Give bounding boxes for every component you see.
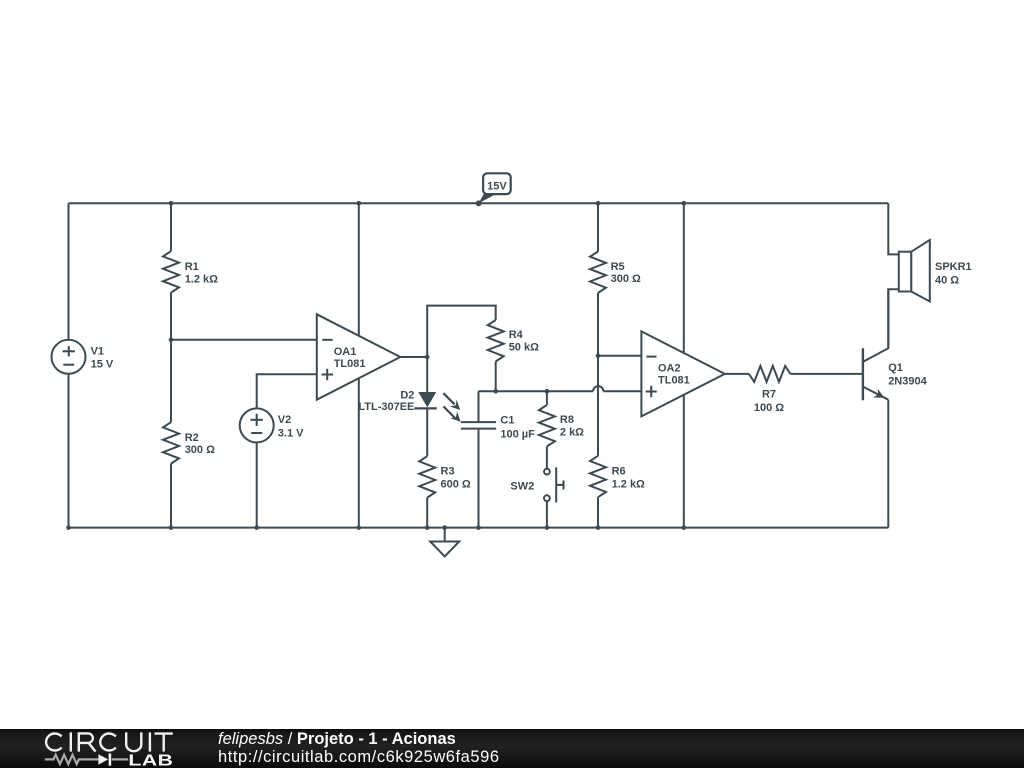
- svg-text:15V: 15V: [487, 180, 507, 192]
- svg-text:2 kΩ: 2 kΩ: [560, 426, 584, 438]
- svg-text:1.2 kΩ: 1.2 kΩ: [612, 479, 645, 491]
- svg-text:100 µF: 100 µF: [500, 428, 535, 440]
- svg-text:600 Ω: 600 Ω: [441, 478, 471, 490]
- svg-text:2N3904: 2N3904: [888, 376, 927, 388]
- svg-text:D2: D2: [400, 390, 414, 402]
- svg-text:15 V: 15 V: [91, 359, 114, 371]
- svg-text:OA1: OA1: [334, 346, 357, 358]
- svg-text:100 Ω: 100 Ω: [754, 402, 784, 414]
- svg-text:R2: R2: [185, 432, 199, 444]
- svg-text:SPKR1: SPKR1: [935, 261, 972, 273]
- svg-text:felipesbs / Projeto - 1 - Acio: felipesbs / Projeto - 1 - Acionas: [218, 730, 456, 748]
- svg-text:40 Ω: 40 Ω: [935, 274, 959, 286]
- svg-text:Q1: Q1: [888, 362, 903, 374]
- svg-text:R5: R5: [611, 261, 625, 273]
- svg-text:R6: R6: [612, 466, 626, 478]
- svg-text:OA2: OA2: [658, 362, 681, 374]
- svg-text:3.1 V: 3.1 V: [278, 428, 304, 440]
- svg-text:1.2 kΩ: 1.2 kΩ: [185, 273, 218, 285]
- svg-text:R8: R8: [560, 414, 574, 426]
- svg-text:TL081: TL081: [658, 375, 690, 387]
- svg-text:R4: R4: [509, 329, 524, 341]
- svg-text:R1: R1: [185, 261, 199, 273]
- svg-text:LAB: LAB: [128, 751, 173, 768]
- svg-text:V1: V1: [91, 346, 104, 358]
- svg-text:http://circuitlab.com/c6k925w6: http://circuitlab.com/c6k925w6fa596: [218, 748, 500, 766]
- svg-text:50 kΩ: 50 kΩ: [509, 342, 539, 354]
- svg-text:V2: V2: [278, 414, 291, 426]
- svg-text:SW2: SW2: [510, 480, 534, 492]
- svg-text:R7: R7: [762, 389, 776, 401]
- svg-text:C1: C1: [500, 414, 514, 426]
- svg-text:LTL-307EE: LTL-307EE: [358, 401, 414, 413]
- svg-text:R3: R3: [441, 466, 455, 478]
- svg-text:300 Ω: 300 Ω: [611, 273, 641, 285]
- svg-text:TL081: TL081: [334, 358, 366, 370]
- svg-text:300 Ω: 300 Ω: [185, 444, 215, 456]
